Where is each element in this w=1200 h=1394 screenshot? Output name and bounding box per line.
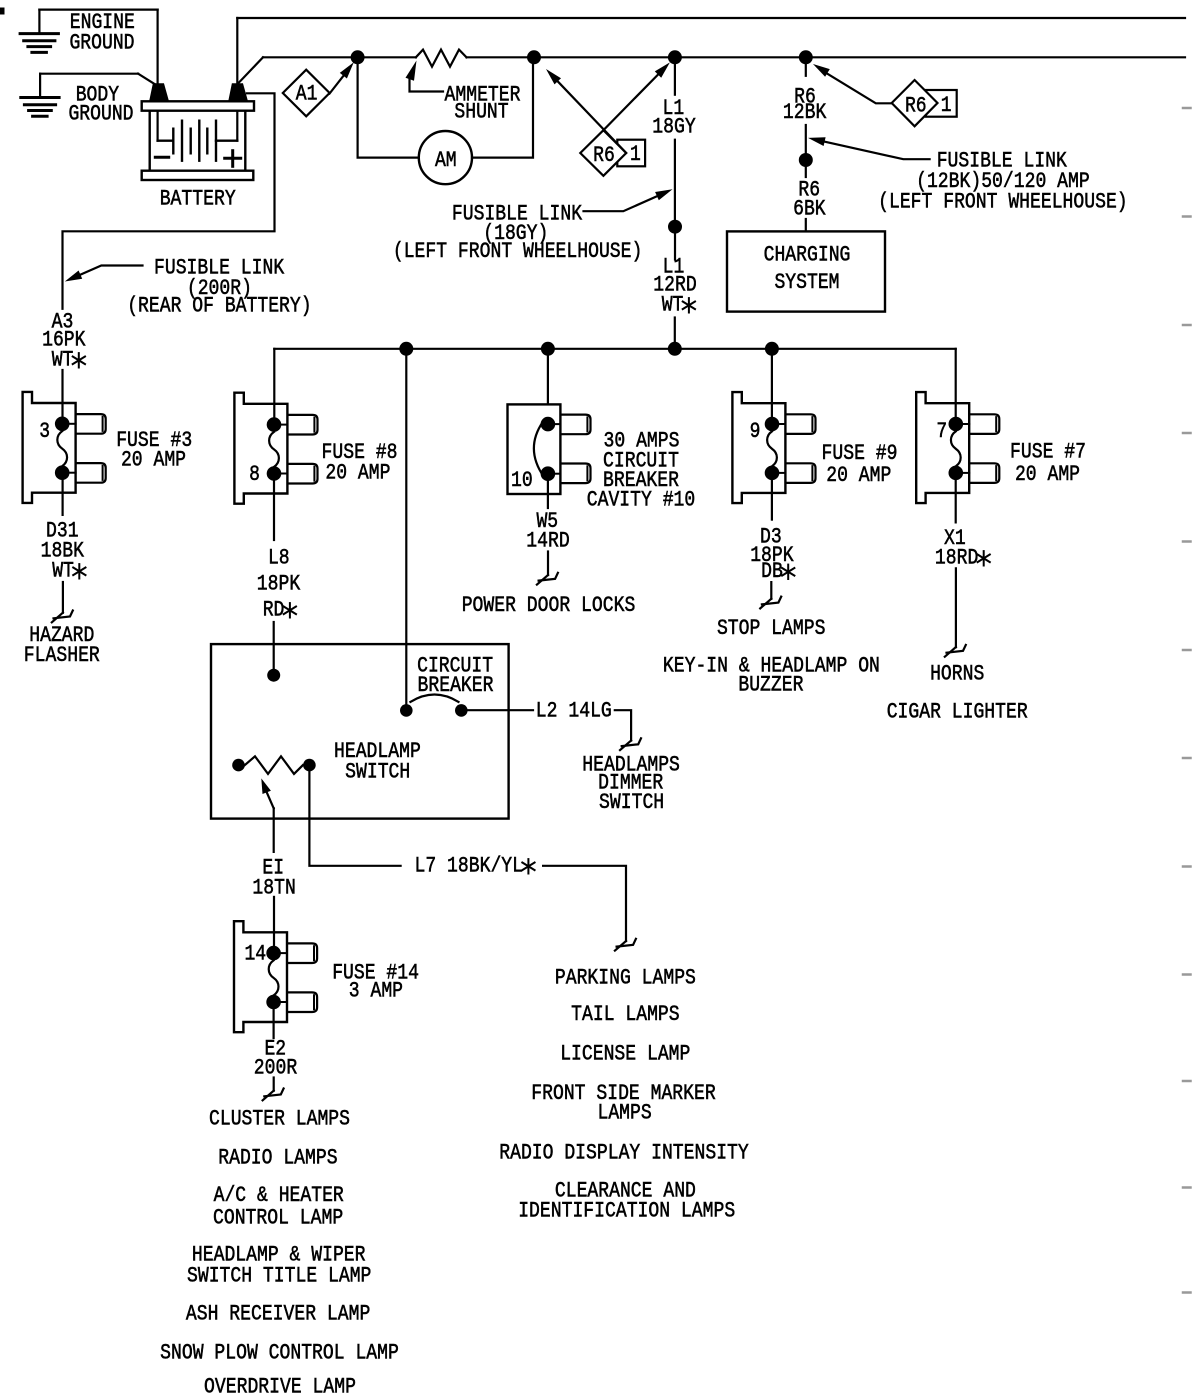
svg-text:IDENTIFICATION LAMPS: IDENTIFICATION LAMPS xyxy=(518,1199,735,1224)
svg-text:WT: WT xyxy=(662,293,684,318)
svg-text:GROUND: GROUND xyxy=(68,102,133,127)
svg-text:WT: WT xyxy=(52,348,74,373)
svg-text:R6: R6 xyxy=(905,94,927,119)
svg-text:BUZZER: BUZZER xyxy=(738,673,803,698)
svg-text:7: 7 xyxy=(936,419,947,444)
svg-text:OVERDRIVE LAMP: OVERDRIVE LAMP xyxy=(204,1375,356,1394)
svg-text:L2 14LG: L2 14LG xyxy=(536,699,612,724)
svg-text:3 AMP: 3 AMP xyxy=(349,979,403,1004)
svg-text:18GY: 18GY xyxy=(652,115,695,140)
svg-text:LAMPS: LAMPS xyxy=(598,1101,652,1126)
svg-text:L7 18BK/YL: L7 18BK/YL xyxy=(415,854,524,879)
svg-text:RD: RD xyxy=(263,598,285,623)
svg-text:(LEFT FRONT WHEELHOUSE): (LEFT FRONT WHEELHOUSE) xyxy=(878,190,1128,215)
svg-text:POWER DOOR LOCKS: POWER DOOR LOCKS xyxy=(462,593,636,618)
svg-text:SHUNT: SHUNT xyxy=(454,100,508,125)
svg-text:CIGAR LIGHTER: CIGAR LIGHTER xyxy=(887,700,1028,725)
svg-text:LICENSE LAMP: LICENSE LAMP xyxy=(560,1042,690,1067)
svg-text:AM: AM xyxy=(435,148,457,173)
svg-text:20 AMP: 20 AMP xyxy=(826,463,891,488)
svg-text:14RD: 14RD xyxy=(526,529,569,554)
svg-text:BATTERY: BATTERY xyxy=(160,187,236,212)
svg-text:(REAR OF BATTERY): (REAR OF BATTERY) xyxy=(127,294,311,319)
svg-text:SWITCH: SWITCH xyxy=(599,790,664,815)
svg-text:(LEFT FRONT WHEELHOUSE): (LEFT FRONT WHEELHOUSE) xyxy=(393,239,643,264)
svg-text:9: 9 xyxy=(750,419,761,444)
svg-text:GROUND: GROUND xyxy=(69,31,134,56)
svg-text:SYSTEM: SYSTEM xyxy=(774,270,839,295)
svg-text:CONTROL LAMP: CONTROL LAMP xyxy=(213,1206,343,1231)
svg-text:200R: 200R xyxy=(254,1056,297,1081)
svg-text:10: 10 xyxy=(511,468,533,493)
svg-text:STOP LAMPS: STOP LAMPS xyxy=(717,616,826,641)
svg-text:20 AMP: 20 AMP xyxy=(325,461,390,486)
svg-text:18PK: 18PK xyxy=(257,572,301,597)
svg-text:PARKING LAMPS: PARKING LAMPS xyxy=(555,966,696,991)
svg-text:FUSE #7: FUSE #7 xyxy=(1010,440,1086,465)
svg-text:HORNS: HORNS xyxy=(930,662,984,687)
svg-text:L8: L8 xyxy=(268,546,290,571)
svg-text:20 AMP: 20 AMP xyxy=(121,447,186,472)
svg-text:8: 8 xyxy=(249,462,260,487)
svg-text:RADIO LAMPS: RADIO LAMPS xyxy=(218,1146,337,1171)
svg-text:DB: DB xyxy=(761,559,783,584)
svg-text:CHARGING: CHARGING xyxy=(764,243,851,268)
svg-text:A1: A1 xyxy=(296,82,318,107)
svg-text:FLASHER: FLASHER xyxy=(24,643,100,668)
svg-text:RADIO DISPLAY INTENSITY: RADIO DISPLAY INTENSITY xyxy=(499,1141,749,1166)
svg-text:20 AMP: 20 AMP xyxy=(1015,462,1080,487)
svg-text:18RD: 18RD xyxy=(935,546,978,571)
svg-text:SNOW PLOW CONTROL LAMP: SNOW PLOW CONTROL LAMP xyxy=(160,1341,399,1366)
svg-text:ASH RECEIVER LAMP: ASH RECEIVER LAMP xyxy=(186,1302,370,1327)
svg-text:14: 14 xyxy=(244,942,266,967)
svg-text:SWITCH TITLE LAMP: SWITCH TITLE LAMP xyxy=(187,1264,371,1289)
svg-text:SWITCH: SWITCH xyxy=(345,760,410,785)
svg-text:12BK: 12BK xyxy=(783,100,827,125)
svg-text:1: 1 xyxy=(630,142,641,167)
svg-text:6BK: 6BK xyxy=(793,197,826,222)
svg-text:CAVITY #10: CAVITY #10 xyxy=(587,488,696,513)
svg-text:A/C & HEATER: A/C & HEATER xyxy=(214,1183,344,1208)
svg-text:TAIL LAMPS: TAIL LAMPS xyxy=(571,1002,680,1027)
svg-text:3: 3 xyxy=(39,419,50,444)
svg-text:WT: WT xyxy=(52,559,74,584)
svg-text:R6: R6 xyxy=(593,143,615,168)
svg-text:1: 1 xyxy=(941,93,952,118)
svg-text:CLUSTER LAMPS: CLUSTER LAMPS xyxy=(209,1107,350,1132)
